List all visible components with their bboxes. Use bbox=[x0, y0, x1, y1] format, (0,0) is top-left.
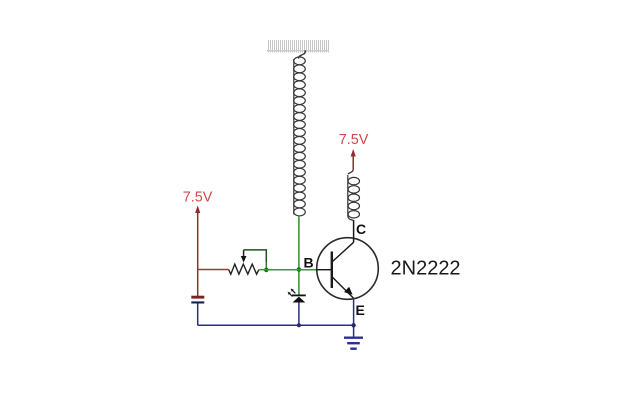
wire R1 to base B bbox=[259, 269, 267, 271]
transistor Q1 circle bbox=[317, 238, 379, 300]
node emitter/rail junction bbox=[351, 323, 355, 327]
svg-text:C: C bbox=[356, 221, 366, 237]
svg-text:7.5V: 7.5V bbox=[183, 189, 213, 205]
wire supply to L2 bbox=[348, 170, 353, 175]
wire bottom rail bbox=[198, 324, 354, 326]
node R1 right terminal bbox=[264, 268, 269, 273]
wire D1 to bottom rail bbox=[298, 303, 300, 326]
antenna A1 bbox=[267, 40, 329, 53]
wire L1 to base node bbox=[298, 216, 300, 270]
diode D1 (LED) bbox=[292, 294, 306, 296]
Q1 base bar bbox=[331, 252, 333, 289]
svg-text:B: B bbox=[304, 255, 314, 271]
wire supply to R1 bbox=[198, 269, 229, 271]
Q1 emitter lead bbox=[333, 277, 354, 298]
wire antenna to L1 bbox=[299, 50, 306, 58]
svg-text:7.5V: 7.5V bbox=[339, 132, 369, 148]
node base junction bbox=[297, 267, 302, 272]
wire emitter to ground bbox=[353, 298, 355, 338]
Q1 emitter arrow bbox=[344, 287, 353, 295]
supply arrow left bbox=[195, 206, 200, 214]
R1 wiper arrow bbox=[243, 250, 245, 258]
inductor L1 bbox=[294, 57, 306, 216]
Q1 base lead bbox=[317, 269, 332, 271]
inductor L2 bbox=[348, 175, 360, 218]
capacitor C1 bbox=[191, 296, 204, 299]
wire C1 to bottom rail bbox=[197, 304, 199, 326]
wire L2 to collector bbox=[348, 217, 354, 221]
node diode/rail junction bbox=[297, 323, 301, 327]
svg-text:E: E bbox=[356, 302, 365, 318]
potentiometer R1 bbox=[229, 264, 259, 274]
supply arrow right bbox=[351, 149, 356, 157]
Q1 collector lead bbox=[333, 242, 354, 261]
ground GND bbox=[344, 338, 363, 349]
svg-text:2N2222: 2N2222 bbox=[391, 258, 461, 280]
wire base node to diode bbox=[298, 270, 300, 295]
wire R1 wiper to right terminal bbox=[244, 250, 267, 262]
D1 arrows bbox=[292, 290, 295, 293]
